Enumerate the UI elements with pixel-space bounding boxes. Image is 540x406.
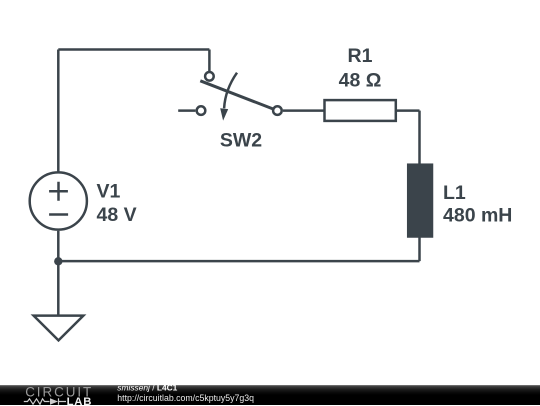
V1 plus sign	[49, 182, 68, 201]
voltage source V1 circle	[30, 172, 87, 229]
wire top horizontal	[58, 48, 209, 51]
wire from V1 plus terminal up left side	[57, 50, 60, 172]
switch SW2 common terminal circle	[205, 72, 214, 81]
wire from V1 minus terminal down	[57, 231, 60, 316]
svg-text:LAB: LAB	[67, 396, 93, 406]
svg-text:48 V: 48 V	[97, 204, 137, 226]
switch SW2 right throw terminal circle	[273, 106, 282, 115]
V1 minus sign	[49, 213, 68, 216]
CircuitLab footer bar	[0, 385, 540, 406]
svg-text:V1: V1	[97, 181, 121, 203]
svg-text:SW2: SW2	[220, 129, 262, 151]
inductor L1 body	[408, 165, 432, 237]
svg-text:480 mH: 480 mH	[443, 205, 512, 227]
CircuitLab logo resistor zigzag and diode	[24, 398, 66, 404]
switch SW2 left throw terminal circle	[197, 106, 206, 115]
resistor R1 body	[325, 100, 396, 121]
svg-text:48 Ω: 48 Ω	[339, 69, 382, 91]
wire bottom horizontal	[58, 260, 419, 263]
wire from L1 bottom down	[418, 237, 421, 262]
junction node dot	[54, 257, 62, 265]
svg-text:smissenj / L4C1: smissenj / L4C1	[117, 385, 177, 393]
svg-text:L1: L1	[443, 182, 466, 204]
svg-text:R1: R1	[348, 45, 373, 67]
wire stub on SW2 left throw	[178, 109, 195, 112]
switch SW2 actuation arrow head	[220, 108, 228, 120]
wire from R1 to top of right branch	[396, 109, 420, 112]
svg-text:http://circuitlab.com/c5kptuy5: http://circuitlab.com/c5kptuy5y7g3q	[117, 392, 254, 402]
wire from SW2 right throw to R1	[283, 109, 325, 112]
switch SW2 actuation arrow arc	[224, 73, 237, 109]
wire down right branch to L1	[418, 111, 421, 165]
ground symbol	[34, 316, 84, 341]
wire down to SW2 common	[208, 50, 211, 72]
switch SW2 blade	[200, 81, 273, 109]
